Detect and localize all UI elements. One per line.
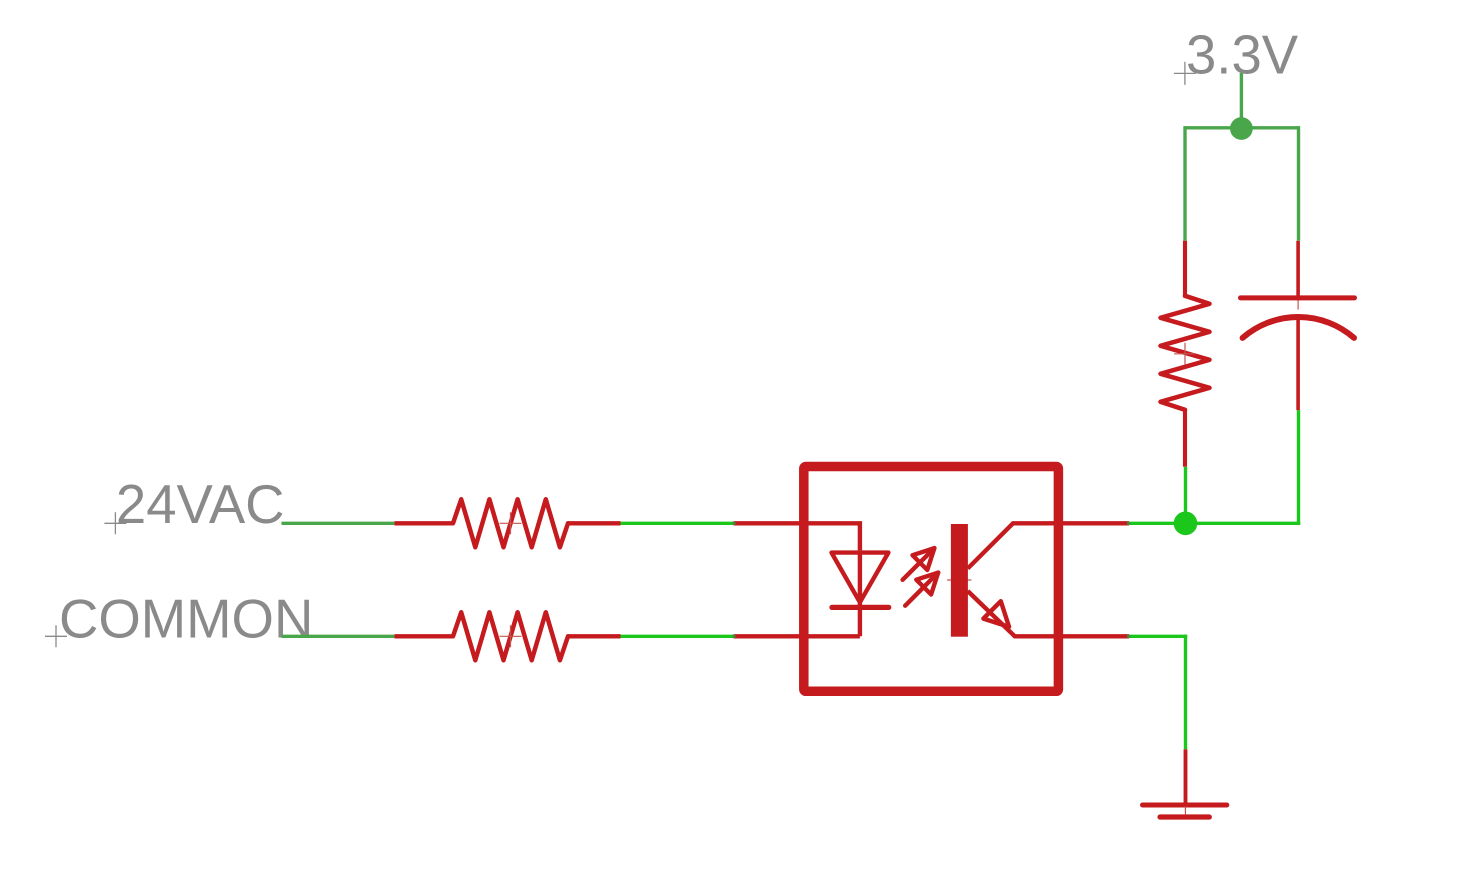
capacitor C1: curved bottom plate: [1243, 317, 1354, 338]
optocoupler U1: light arrow 2 shaft: [905, 573, 938, 606]
wire net N$3: node up to R3: [1184, 467, 1187, 524]
optocoupler U1: pin 1 anode wire: [734, 523, 860, 550]
origin cross of COMMON label: [45, 625, 67, 647]
wire net N$3: opto collector to node: [1129, 522, 1300, 525]
origin cross of 24VAC label: [104, 512, 126, 534]
optocoupler U1: LED cathode bar: [832, 605, 889, 610]
capacitor C1 (polarized): top lead: [1296, 241, 1300, 300]
resistor R3: zigzag body: [1161, 296, 1210, 410]
ground GND: upper bar: [1143, 803, 1227, 808]
capacitor C1: origin cross: [1297, 300, 1299, 309]
wire net 3.3V: right vertical drop to C1: [1297, 126, 1300, 241]
resistor R3 (pull-up): top lead: [1183, 241, 1187, 298]
resistor R1: right lead: [568, 521, 621, 525]
wire net N$3: cap branch vertical: [1297, 410, 1300, 525]
resistor R1: left lead: [395, 521, 454, 525]
wire net N$4: vertical down to ground: [1184, 635, 1187, 750]
resistor R2: left lead: [395, 634, 454, 638]
wire net 3.3V: top horizontal rail: [1185, 126, 1299, 129]
wire net N$4: opto emitter to corner: [1129, 635, 1187, 638]
capacitor C1: flat top plate: [1241, 295, 1355, 300]
pin tip dot 3 (emitter): [1127, 635, 1131, 639]
capacitor C1: bottom lead: [1296, 318, 1300, 410]
resistor R1: zigzag body: [453, 499, 568, 547]
ground GND: origin hairline: [1184, 806, 1186, 815]
pin tip dot 1 (anode): [732, 522, 736, 526]
optocoupler U1: LED center lead: [858, 550, 862, 636]
wire net N$2: R2 to opto pin: [621, 635, 734, 638]
optocoupler U1: emitter arrow head: [983, 601, 1009, 627]
resistor R3: origin cross: [1174, 343, 1196, 365]
optocoupler U1: LED triangle: [832, 553, 889, 603]
optocoupler U1: body box: [804, 467, 1059, 692]
optocoupler U1: light arrow 2 head: [916, 573, 938, 595]
optocoupler U1: light arrow 1 head: [913, 548, 935, 570]
svg-text:COMMON: COMMON: [59, 588, 313, 649]
optocoupler U1: pin 2 cathode wire: [734, 634, 860, 638]
pin tip dot 4 (collector): [1127, 522, 1131, 526]
pin tip dot 2 (cathode): [732, 635, 736, 639]
junction dot at output node: [1174, 512, 1198, 536]
origin cross of 3.3V label: [1174, 62, 1196, 85]
svg-text:24VAC: 24VAC: [116, 474, 285, 535]
optocoupler U1: collector line and pin 4: [968, 523, 1129, 568]
resistor R1: origin cross: [500, 512, 522, 534]
wire net 3.3V: left vertical drop to R3: [1183, 126, 1186, 241]
wire net COMMON: label stub: [282, 635, 395, 638]
optocoupler U1: light arrow 1 shaft: [903, 548, 935, 580]
optocoupler U1: emitter line and pin 3: [968, 591, 1129, 636]
wire net 24VAC: label stub: [282, 522, 395, 525]
optocoupler U1: phototransistor base bar: [951, 524, 968, 637]
junction dot on 3.3V rail: [1230, 117, 1253, 140]
resistor R2: origin cross: [500, 625, 522, 647]
resistor R2: zigzag body: [453, 612, 568, 660]
resistor R3: bottom lead: [1183, 409, 1187, 467]
wire net 3.3V: vertical stub below label: [1240, 73, 1243, 129]
ground GND: lead: [1184, 749, 1188, 804]
resistor R2: right lead: [568, 634, 621, 638]
optocoupler U1: origin cross: [947, 568, 971, 592]
wire net N$1: R1 to opto pin: [621, 522, 734, 525]
ground GND: lower bar: [1160, 814, 1209, 819]
